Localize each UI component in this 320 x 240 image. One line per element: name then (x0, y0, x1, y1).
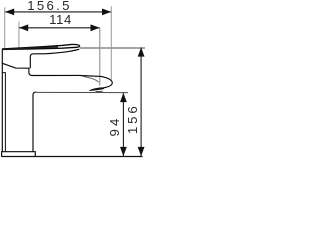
extension line from lever tip (height 156) (80, 47, 145, 49)
extension line left (projection 114) (18, 22, 20, 48)
column inner edge with ledge (2, 73, 5, 152)
faucet lever handle (side view wedge) (3, 44, 80, 49)
dimension line 94 (vertical) (122, 93, 124, 156)
svg-text:94: 94 (107, 115, 122, 136)
extension line left (overall width 156.5) (4, 7, 6, 49)
aerator (black) (89, 87, 105, 91)
dimension line 114 (19, 27, 100, 29)
extension line right (overall width 156.5) (110, 6, 112, 81)
faucet body back edge and shoulder (2, 50, 80, 76)
baseline (mounting surface) (1, 156, 142, 158)
aerator face line (96, 90, 103, 93)
lever wedge interior (merged lines at left) (3, 47, 59, 49)
svg-text:114: 114 (49, 12, 72, 27)
dimension line 156.5 (5, 11, 111, 13)
extension line right (projection 114, spout front) (99, 28, 101, 86)
base flange (2, 152, 36, 157)
svg-text:156: 156 (125, 103, 140, 134)
spout outlet reference line (94 extension) (36, 91, 128, 93)
column front edge with outlet line (33, 92, 36, 152)
column back edge (1, 63, 3, 152)
dimension line 156 (vertical) (140, 48, 142, 156)
spout body (top contour) (30, 49, 79, 68)
spout tip seam (83, 76, 99, 82)
spout tip (aerator housing beak) (80, 76, 112, 90)
